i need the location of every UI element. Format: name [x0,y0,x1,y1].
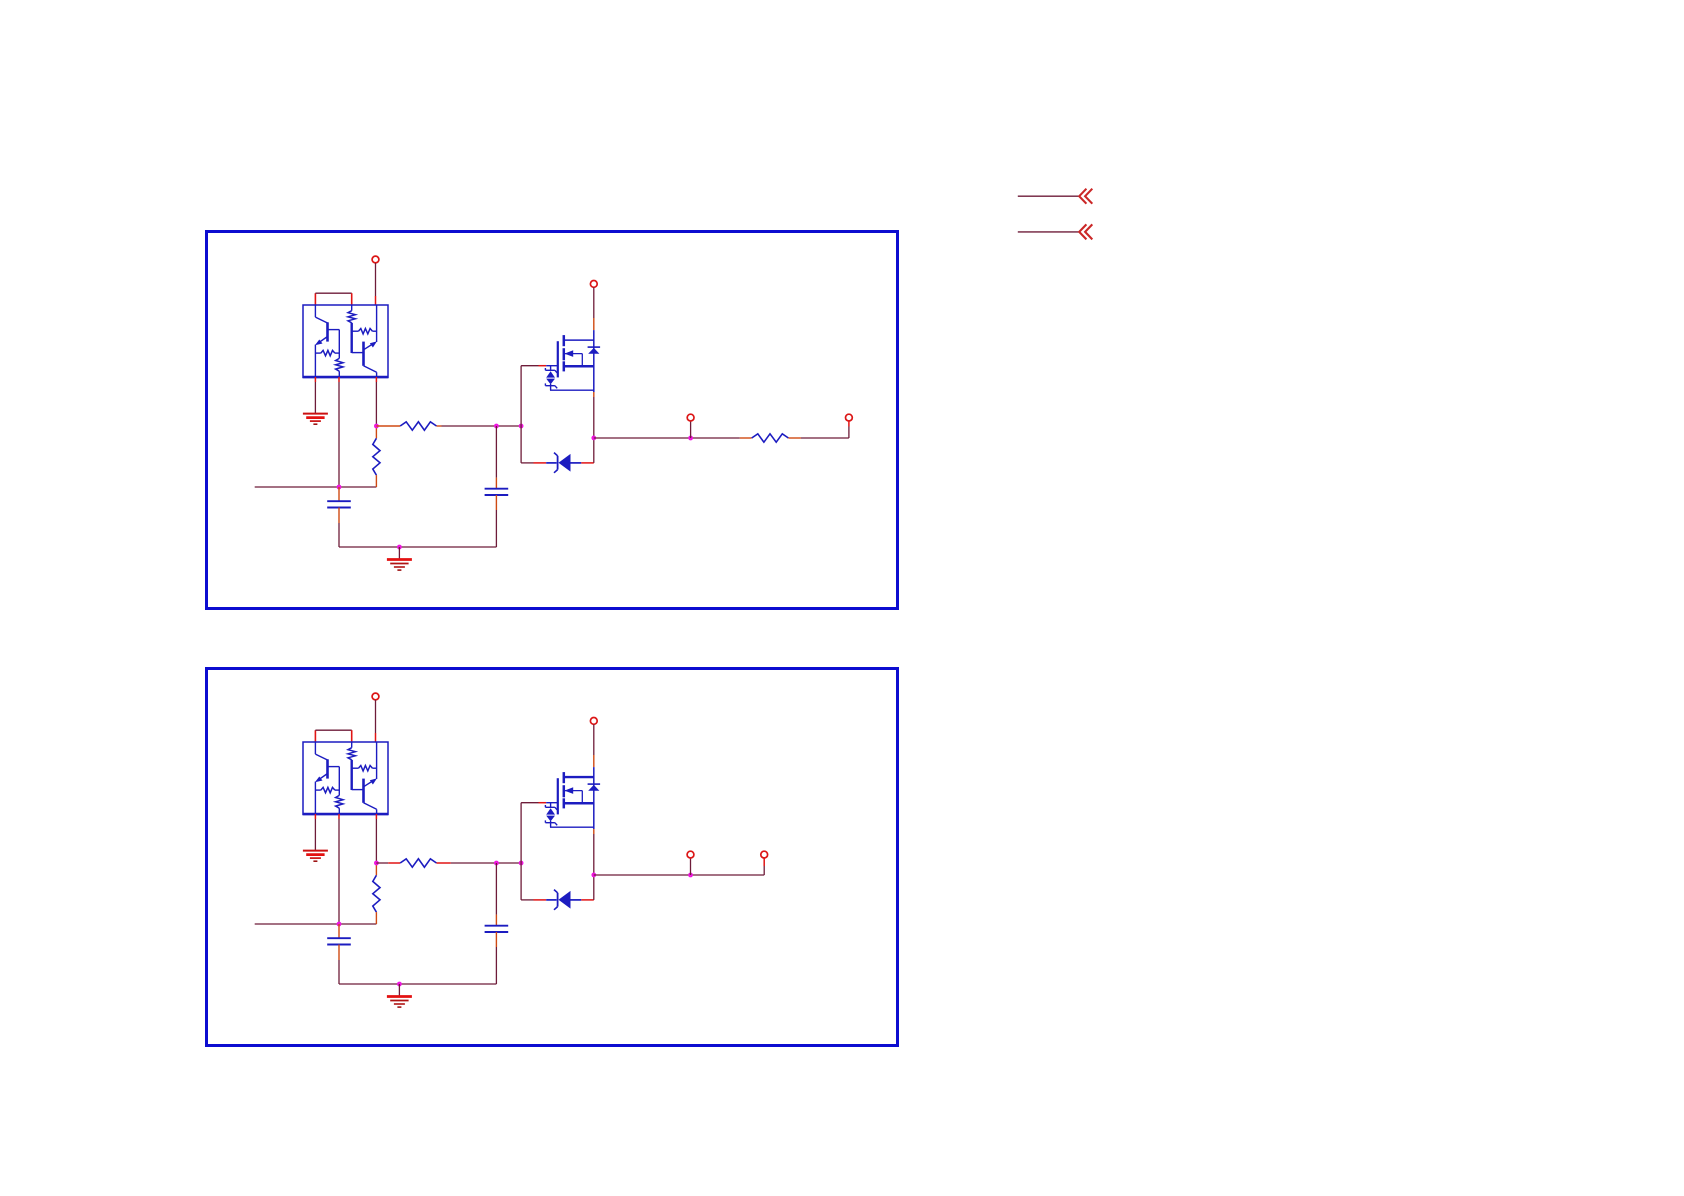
node output tap junction [688,873,693,878]
wire gate RC node [442,425,522,427]
wire supply terminal to U1 emitter pin [375,700,377,733]
resistor R1Ba base series resistor of Q1Ba [328,767,344,814]
node gate drive junction [374,424,379,429]
wire source return of TVS [550,826,594,828]
node ground rail junction [397,545,402,550]
wire zener cathode to source [581,899,594,901]
transistor U1B dual digital transistor package outline [303,742,388,815]
node gate drive junction [374,861,379,866]
node source output junction [591,436,596,441]
resistor R1Aa base series resistor of Q1Aa [328,330,344,377]
wire output net [594,437,740,439]
zener D2B gate-protection TVS inside Q2B [545,803,557,828]
wire input net INA horizontal [255,486,377,488]
wire emitter to ground [314,814,316,850]
outer frame of channel A [207,232,898,609]
wire rail to ground symbol [398,984,400,996]
resistor R3A gate pulldown [373,426,380,487]
wire jumper collector-to-R1b over package top [315,293,351,305]
wire gate RC node [451,862,521,864]
node output tap junction [688,436,693,441]
wire drain terminal feed [593,287,595,330]
terminal J2A drain supply pin [590,281,597,288]
wire input net INB horizontal [255,923,377,925]
wire to zener anode [521,863,546,900]
ground GND2B rail ground [387,997,412,1008]
transistor Q2B power MOSFET [546,767,600,829]
wire Q1b collector down to gate node [375,377,377,426]
resistor R4B gate series resistor [376,859,450,867]
resistor R2Ba base-emitter resistor of Q1Ba [315,787,339,792]
wire emitter to ground [314,377,316,413]
terminal J4B far output pin [761,851,768,875]
resistor R2Aa base-emitter resistor of Q1Aa [315,350,339,355]
terminal J1A supply pin [372,256,379,263]
transistor Q2A power MOSFET [546,330,600,392]
node input junction [337,485,342,490]
wire base input pin down to input net [338,377,340,487]
node gate loop junction [519,424,524,429]
wire Q1b collector down to gate node [375,814,377,863]
node source output junction [591,873,596,878]
transistor Q1Ab right NPN of U1A [364,305,377,377]
wire base input pin down to input net [338,814,340,924]
terminal J1B supply pin [372,693,379,700]
wire drain terminal feed [593,724,595,767]
wire to zener anode [521,426,546,463]
zener diode D1A across output [546,453,581,473]
wire source return of TVS [550,389,594,391]
wire supply terminal to U1 emitter pin [375,263,377,296]
zener D2A gate-protection TVS inside Q2A [545,366,557,391]
off-page connector 2 chevron [1079,224,1092,239]
ground GND2A rail ground [387,560,412,571]
transistor Q1Bb right NPN of U1B [364,742,377,814]
terminal J4A far output pin [846,414,853,438]
wire source down to output node [593,392,595,463]
wire off-page net 1 [1018,195,1079,197]
resistor R3B gate pulldown [373,863,380,924]
wire ground rail [339,546,496,548]
zener diode D1B across output [546,890,581,910]
wire thick bottom edge of U1B [303,813,388,816]
resistor R1Ab base series resistor of Q1Ab [348,305,364,353]
terminal J2B drain supply pin [590,718,597,725]
terminal J3B output test pin [687,851,694,875]
capacitor C2A gate filter [485,426,509,547]
node gate loop junction [519,861,524,866]
wire thick bottom edge of U1A [303,376,388,379]
wire to MOSFET gate [521,803,546,863]
wire ground rail [339,983,496,985]
node input junction [337,922,342,927]
wire rail to ground symbol [398,547,400,559]
transistor U1A dual digital transistor package outline [303,305,388,378]
wire to far output terminal [801,437,849,439]
off-page connector 1 chevron [1079,189,1092,204]
outer frame of channel B [207,669,898,1046]
resistor R2Ab base-emitter resistor of Q1Ab [352,329,377,334]
wire jumper collector-to-R1b over package top [315,730,351,742]
wire to MOSFET gate [521,366,546,426]
terminal J3A output test pin [687,414,694,438]
capacitor C2B gate filter [485,863,509,984]
resistor R2Bb base-emitter resistor of Q1Bb [352,766,377,771]
resistor R1Bb base series resistor of Q1Bb [348,742,364,790]
capacitor C1B input filter [327,924,351,984]
wire output net [594,874,764,876]
transistor Q1Ba left NPN of U1B [315,742,328,814]
wire source down to output node [593,829,595,900]
node filter cap junction [494,861,499,866]
resistor R5A output series resistor [740,434,801,442]
resistor R4A gate series resistor [376,422,441,430]
wire off-page net 2 [1018,231,1079,233]
transistor Q1Aa left NPN of U1A [315,305,328,377]
wire zener cathode to source [581,462,594,464]
node filter cap junction [494,424,499,429]
node ground rail junction [397,982,402,987]
capacitor C1A input filter [327,487,351,547]
ground GND1B emitter ground [303,851,328,862]
ground GND1A emitter ground [303,414,328,425]
